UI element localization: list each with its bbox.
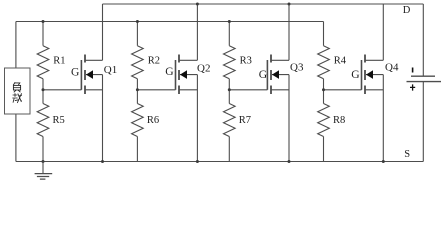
svg-text:R7: R7 [239,115,251,126]
svg-text:G: G [351,68,360,81]
svg-text:R8: R8 [333,115,345,126]
svg-text:Q4: Q4 [385,62,399,74]
svg-text:R1: R1 [53,56,65,67]
svg-text:R2: R2 [148,56,160,67]
svg-text:G: G [71,65,80,78]
svg-text:R6: R6 [147,115,159,126]
svg-text:G: G [259,68,268,81]
svg-text:R4: R4 [334,56,347,67]
svg-text:R5: R5 [53,115,65,126]
svg-text:S: S [404,149,410,160]
svg-text:G: G [165,65,174,78]
svg-text:R3: R3 [240,56,252,67]
svg-text:D: D [403,5,411,16]
svg-text:Q1: Q1 [104,64,117,76]
svg-text:Q3: Q3 [290,62,304,74]
svg-text:Q2: Q2 [197,63,210,75]
